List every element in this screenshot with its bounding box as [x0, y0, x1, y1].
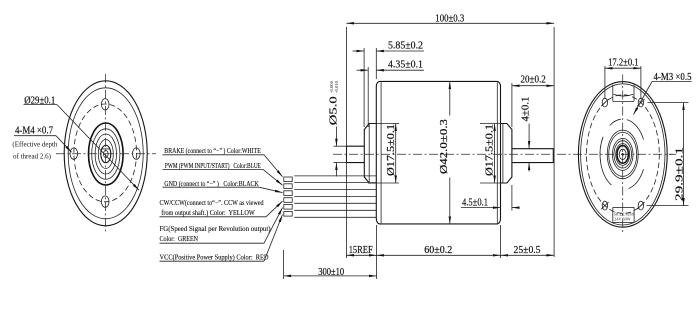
- slot arc left: [600, 137, 611, 185]
- axis centerline: [333, 153, 673, 155]
- svg-text:Ø5.0: Ø5.0: [327, 96, 339, 125]
- vertical centerline: [622, 75, 624, 234]
- dim O17.5 right ext bottom: [480, 182, 501, 184]
- dim 4.35 arrow left: [357, 69, 369, 71]
- dim O42 line: [449, 81, 451, 115]
- svg-text:15REF: 15REF: [349, 244, 373, 256]
- wire ribbon line 4: [294, 196, 376, 198]
- svg-text:Color: GREEN: Color: GREEN: [160, 235, 199, 243]
- underline O29: [24, 104, 58, 106]
- wire ribbon line 6: [294, 209, 376, 211]
- dim 17.2 ext left: [604, 66, 606, 99]
- flange outer rim: [578, 82, 667, 228]
- svg-text:300±10: 300±10: [318, 266, 344, 278]
- leader 3: [259, 187, 283, 192]
- flange inner rim: [68, 88, 143, 219]
- underline 4-M4: [14, 135, 56, 137]
- dim O5 ext top: [334, 145, 349, 147]
- terminal 4: [284, 198, 292, 203]
- underline 3: [163, 186, 260, 188]
- body seam right: [496, 82, 498, 223]
- terminal 1: [284, 177, 292, 182]
- ext terminal left bottom: [283, 250, 285, 279]
- svg-text:25±0.5: 25±0.5: [514, 244, 541, 256]
- wire labels block: [160, 147, 283, 261]
- top cutout left line: [612, 85, 614, 102]
- terminal 2: [284, 184, 292, 189]
- dim 17.2 ext right: [640, 66, 642, 99]
- screw hole BL: [601, 201, 608, 210]
- leader 4-M4: [56, 136, 72, 153]
- dim 15REF line: [346, 254, 376, 256]
- dim 5.85 arrows: [353, 50, 365, 52]
- label 4-M3 underline: [652, 81, 692, 83]
- ext line left end (100/15REF): [345, 27, 347, 258]
- ring b: [609, 132, 637, 176]
- svg-text:FG(Speed Signal per Revolution: FG(Speed Signal per Revolution output): [160, 225, 272, 233]
- svg-text:4.35±0.1: 4.35±0.1: [388, 59, 423, 71]
- dim O17.5 left line: [395, 124, 397, 184]
- svg-text:20±0.2: 20±0.2: [521, 74, 546, 86]
- hole bottom: [101, 196, 109, 207]
- side view of motor: [284, 81, 673, 224]
- ext 20 left: [511, 83, 513, 127]
- dim 4.5 right arrow: [512, 207, 520, 209]
- name tag rect: [613, 208, 634, 223]
- slot arc upper right: [627, 120, 644, 140]
- ext boss right bottom: [511, 185, 513, 211]
- ring f bold: [617, 146, 628, 164]
- dim 300 line: [284, 275, 377, 277]
- underline 6: [160, 260, 265, 262]
- dim O17.5 right ext top: [480, 123, 501, 125]
- slot arc bottom right: [629, 169, 644, 188]
- left boss: [364, 124, 376, 184]
- right boss step: [502, 124, 504, 184]
- leader 4: [266, 201, 283, 217]
- right boss: [501, 124, 512, 184]
- ring g: [619, 149, 626, 159]
- bolt circle O29 dashed: [74, 104, 137, 202]
- svg-text:4±0.1: 4±0.1: [520, 97, 532, 122]
- underline 2: [163, 168, 264, 170]
- ext 4.35 left: [367, 67, 369, 127]
- bolt circle dashed: [587, 95, 660, 214]
- dim 4 lower arrow: [528, 163, 530, 172]
- wire ribbon line 3: [294, 189, 376, 191]
- center hole: [104, 150, 109, 157]
- ext 5.85 left: [363, 48, 365, 127]
- top cutout right line: [633, 85, 635, 102]
- wire ribbon line 2: [294, 182, 376, 184]
- dim 100 line: [346, 22, 554, 24]
- horizontal centerline: [56, 153, 156, 155]
- dim O17.5 left ext bottom: [368, 182, 399, 184]
- svg-text:60±0.2: 60±0.2: [424, 244, 452, 256]
- dim 29.9 line: [683, 103, 685, 206]
- dim 29.9 ext bottom: [647, 205, 689, 207]
- svg-text:4.5±0.1: 4.5±0.1: [462, 196, 488, 208]
- center rings: [607, 130, 638, 179]
- screw hole BR: [637, 201, 644, 210]
- dim 29.9 ext top: [648, 102, 689, 104]
- dim 5.85 line under text: [376, 50, 424, 52]
- horizontal centerline right part: [669, 153, 676, 155]
- rear shaft: [347, 146, 365, 162]
- dim 20 line: [512, 85, 554, 87]
- svg-text:CW/CCW(connect to“−”. CCW as v: CW/CCW(connect to“−”. CCW as viewed: [160, 199, 264, 207]
- svg-text:PWM (PWM INPUT/START) Color:: PWM (PWM INPUT/START) Color:BLUE: [165, 162, 261, 170]
- dim O5 lower arrow: [335, 163, 337, 177]
- screw hole TL: [601, 98, 608, 107]
- ring c: [612, 138, 633, 170]
- svg-text:Ø17.5±0.1: Ø17.5±0.1: [385, 124, 397, 176]
- ext body right bottom: [500, 225, 502, 258]
- leader 5: [264, 208, 283, 244]
- svg-text:17.2±0.1: 17.2±0.1: [608, 57, 639, 69]
- svg-text:from output shaft.) Color: YE: from output shaft.) Color: YELLOW: [161, 209, 255, 217]
- leader 1: [264, 155, 283, 177]
- terminal 3: [284, 191, 292, 196]
- wire ribbon line 7: [294, 216, 376, 218]
- svg-text:29.9±0.1: 29.9±0.1: [673, 147, 685, 201]
- svg-text:Ø17.5±0.1: Ø17.5±0.1: [484, 124, 496, 176]
- dim O5 upper arrow: [335, 127, 337, 147]
- ring a: [607, 130, 638, 179]
- dimensions on side view: [284, 13, 554, 279]
- dim O42 line lower: [449, 178, 451, 224]
- screw hole TR: [637, 98, 644, 107]
- wire ribbon line 5: [294, 202, 376, 204]
- top cutout bottom: [613, 100, 634, 102]
- svg-text:of thread 2.6): of thread 2.6): [13, 153, 51, 160]
- ext body-face top: [375, 48, 377, 79]
- hole right: [133, 148, 141, 159]
- dim 17.2 line: [605, 67, 641, 69]
- dim 60 line: [377, 254, 501, 256]
- dim 4 upper arrow: [528, 124, 530, 149]
- dim 4.5 underline + arrow: [461, 207, 501, 209]
- leader 2: [263, 169, 283, 185]
- wire ribbon line 1: [294, 175, 376, 177]
- leader O29: [57, 105, 139, 191]
- shaft ring: [101, 145, 111, 163]
- top cutout arc: [614, 94, 634, 96]
- terminal 5: [284, 205, 292, 210]
- dim 4.35 line under text: [376, 69, 424, 71]
- underline 5: [160, 242, 265, 244]
- ring 4: [98, 140, 113, 169]
- ring 2: [92, 129, 120, 179]
- svg-text:100±0.3: 100±0.3: [435, 13, 464, 25]
- front shaft: [512, 149, 553, 163]
- underline 4: [160, 216, 267, 218]
- motor body: [376, 81, 500, 224]
- slot arc top left: [610, 119, 621, 125]
- svg-text:-0.010: -0.010: [334, 80, 339, 93]
- shaft flat chord: [102, 148, 109, 150]
- terminal 6: [284, 212, 292, 217]
- center dot: [622, 153, 624, 156]
- svg-text:Ø42.0±0.3: Ø42.0±0.3: [438, 119, 450, 174]
- dim 25 line: [501, 254, 555, 256]
- hole left: [70, 148, 78, 159]
- body seam left: [380, 82, 382, 223]
- dim O17.5 right line: [494, 124, 496, 184]
- svg-text:(Effective depth: (Effective depth: [12, 142, 58, 149]
- leader 6: [264, 215, 283, 262]
- ext body face bottom: [376, 225, 378, 279]
- svg-text:4-M4 ×0.7: 4-M4 ×0.7: [15, 125, 53, 137]
- svg-text:VCC(Positive Power Supply) Col: VCC(Positive Power Supply) Color: RED: [160, 253, 269, 261]
- svg-text:5.85±0.2: 5.85±0.2: [388, 39, 423, 51]
- svg-text:BRAKE (connect to “−” ) Color:: BRAKE (connect to “−” ) Color:WHITE: [164, 147, 261, 155]
- flange outer rim: [64, 81, 147, 226]
- dim O17.5 left ext top: [368, 123, 399, 125]
- underline 1: [163, 154, 265, 156]
- right flange rear view: [578, 57, 691, 234]
- flange inner rim: [581, 84, 665, 225]
- left boss step: [368, 124, 370, 184]
- vertical centerline: [104, 74, 106, 234]
- center boss ring bold: [89, 123, 124, 185]
- leader 4-M3: [634, 82, 653, 115]
- ext line right end (100/20/25): [553, 27, 555, 257]
- ring e: [616, 144, 630, 166]
- ring d: [614, 141, 632, 168]
- left flange front view: [12, 74, 156, 234]
- hole top: [101, 99, 109, 110]
- ring 3: [95, 134, 116, 174]
- dim O5 ext bottom: [334, 162, 349, 164]
